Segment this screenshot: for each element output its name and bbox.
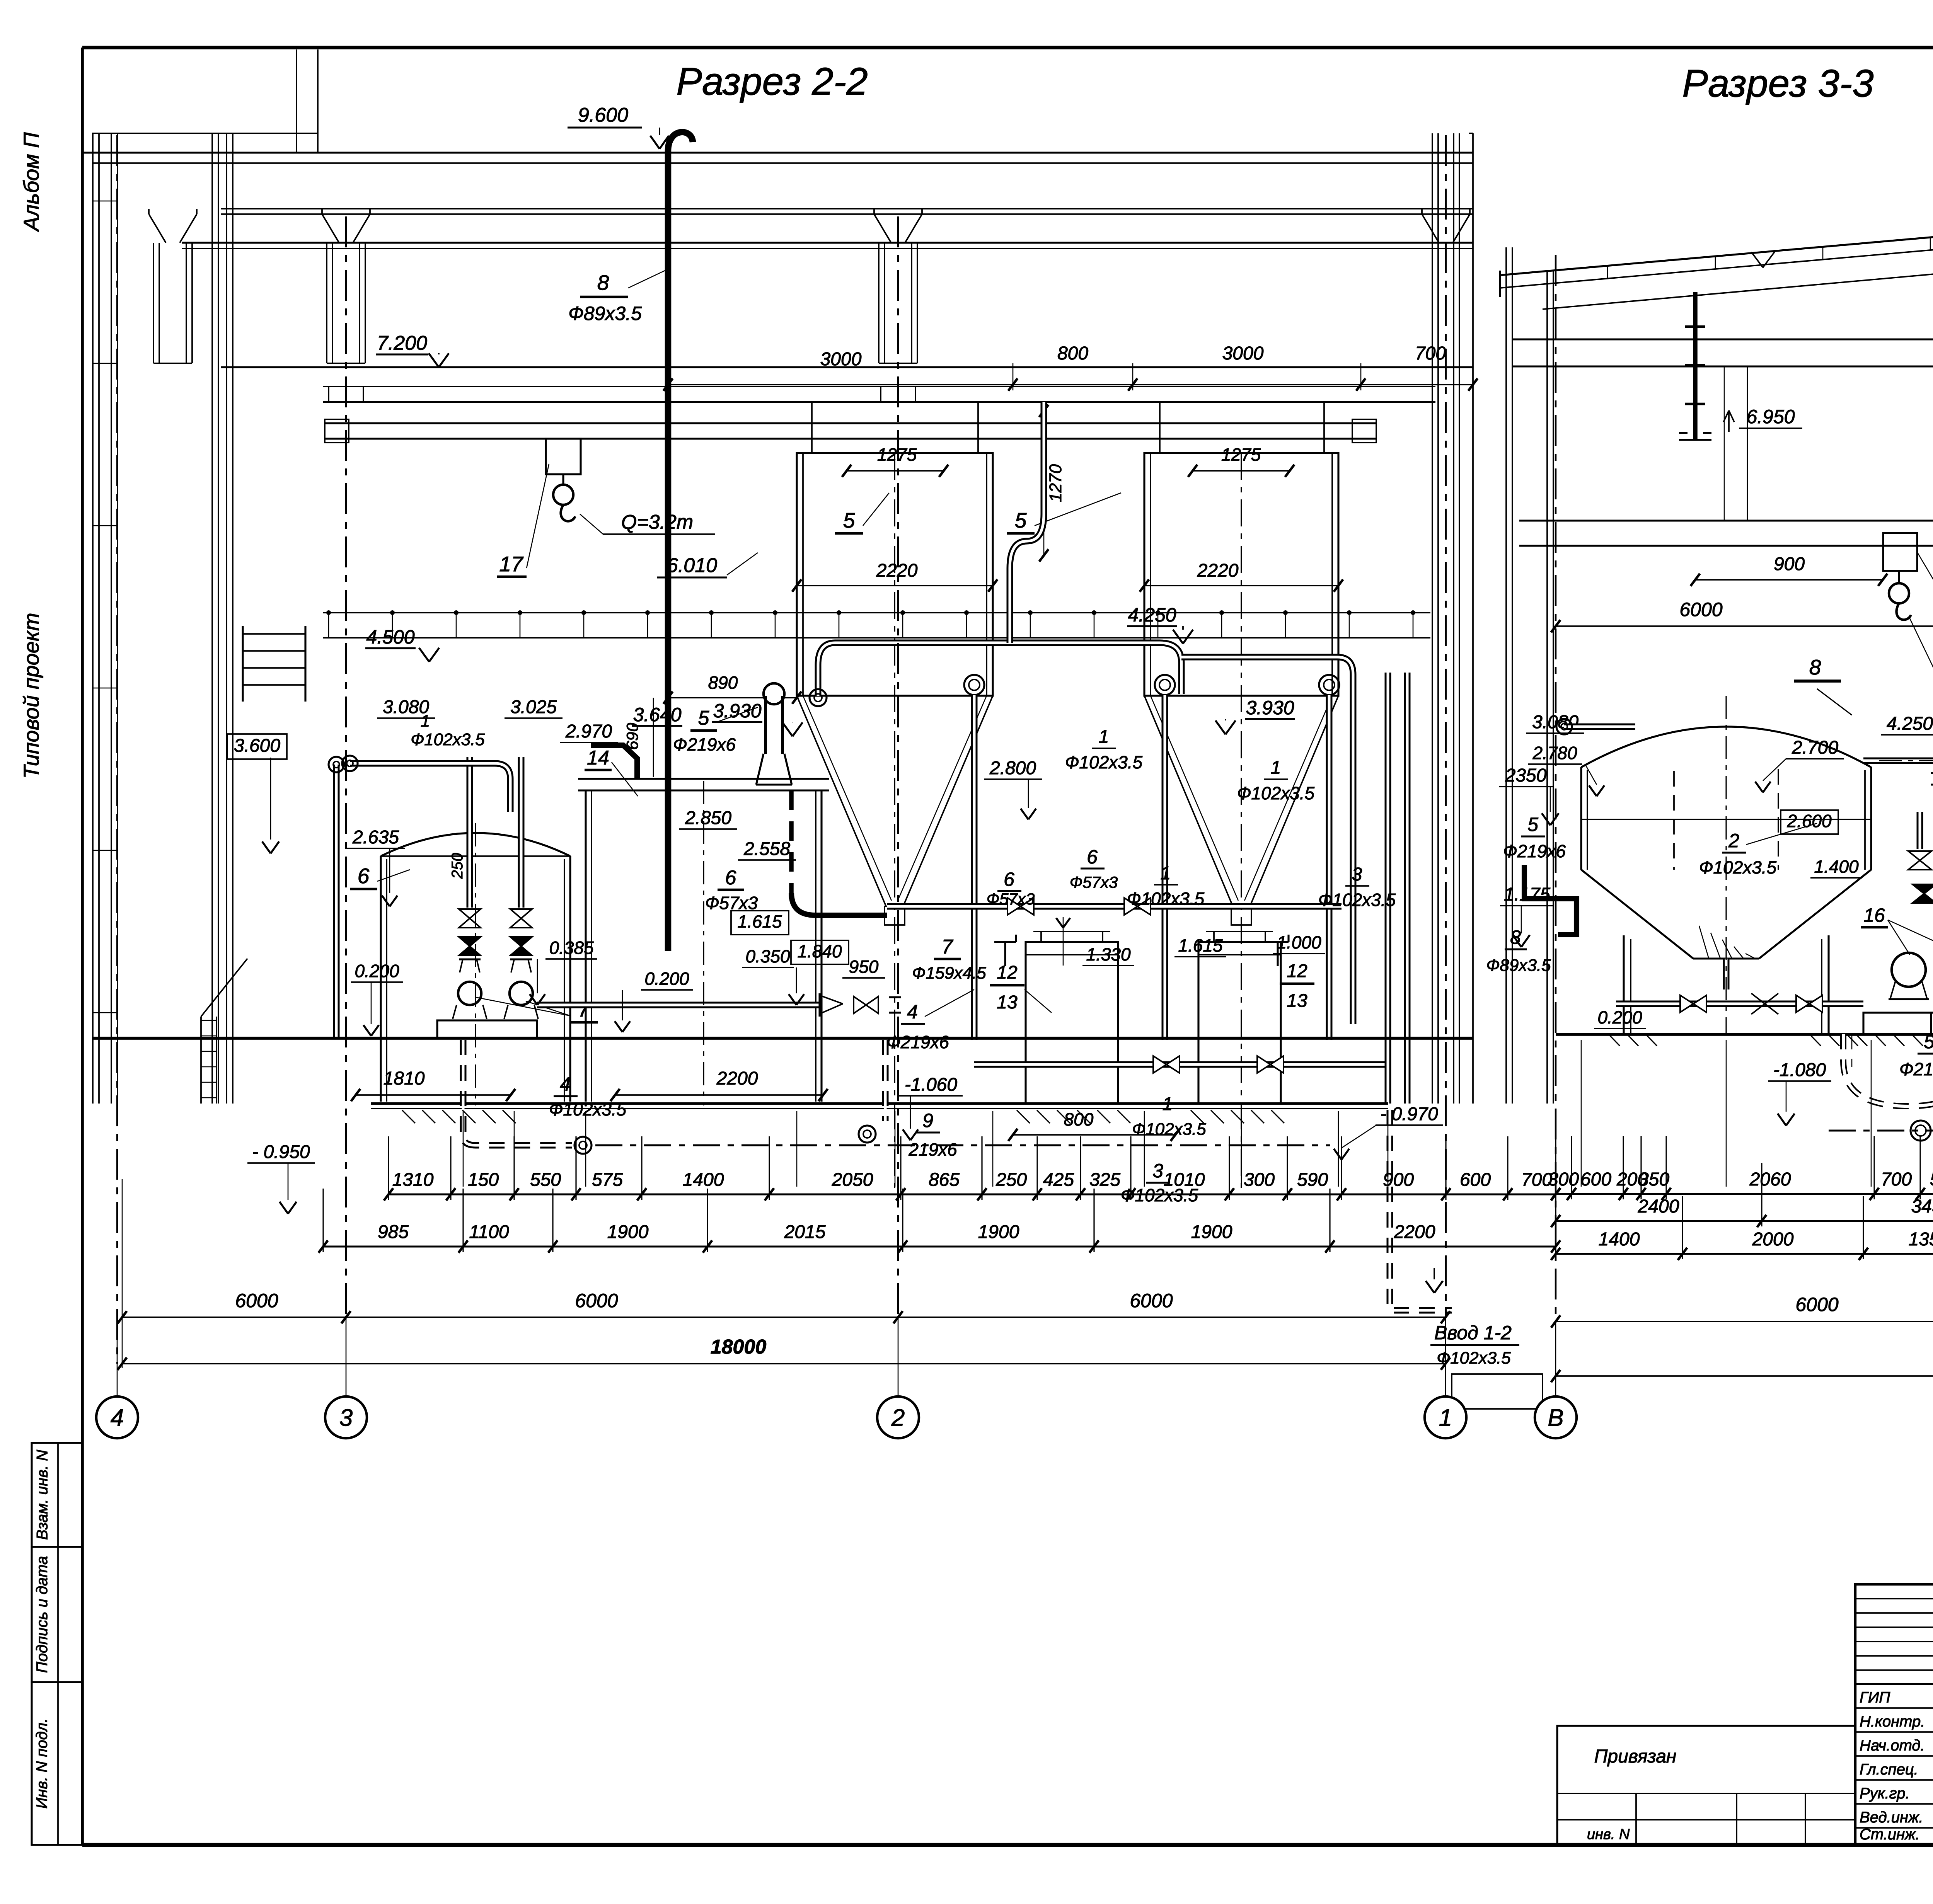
svg-text:300: 300 <box>1548 1169 1579 1190</box>
svg-text:3000: 3000 <box>1222 343 1264 364</box>
svg-text:Ф102х3.5: Ф102х3.5 <box>1699 857 1777 877</box>
svg-text:1: 1 <box>1099 727 1109 747</box>
svg-text:2050: 2050 <box>832 1170 873 1190</box>
svg-text:0.200: 0.200 <box>355 961 399 981</box>
svg-text:4: 4 <box>560 1073 571 1095</box>
svg-text:6000: 6000 <box>235 1290 278 1311</box>
svg-text:Ф102х3.5: Ф102х3.5 <box>1318 890 1396 910</box>
svg-text:14: 14 <box>587 747 609 769</box>
svg-text:1400: 1400 <box>683 1170 724 1190</box>
svg-text:Вед.инж.: Вед.инж. <box>1860 1809 1923 1826</box>
svg-text:4.500: 4.500 <box>366 626 414 648</box>
svg-text:590: 590 <box>1297 1170 1328 1190</box>
svg-text:Ф89х3.5: Ф89х3.5 <box>1486 956 1551 975</box>
svg-text:Нач.отд.: Нач.отд. <box>1860 1737 1925 1754</box>
svg-text:Взам. инв. N: Взам. инв. N <box>34 1450 51 1540</box>
svg-text:2220: 2220 <box>876 560 918 581</box>
svg-text:2400: 2400 <box>1638 1196 1679 1217</box>
svg-text:13: 13 <box>997 992 1018 1013</box>
svg-text:6000: 6000 <box>1130 1290 1173 1311</box>
svg-text:1810: 1810 <box>384 1068 425 1089</box>
svg-text:5: 5 <box>1924 1031 1933 1052</box>
svg-text:3: 3 <box>339 1405 353 1431</box>
svg-text:0.350: 0.350 <box>745 946 790 966</box>
svg-text:890: 890 <box>708 673 738 693</box>
svg-text:0.200: 0.200 <box>1597 1007 1642 1027</box>
svg-text:2.850: 2.850 <box>685 808 731 828</box>
svg-text:2.635: 2.635 <box>352 827 399 848</box>
svg-text:Привязан: Привязан <box>1594 1746 1677 1767</box>
svg-text:600: 600 <box>1580 1169 1611 1190</box>
svg-text:250: 250 <box>449 853 466 879</box>
svg-text:Ф102х3.5: Ф102х3.5 <box>1065 752 1143 772</box>
svg-text:Разрез 3-3: Разрез 3-3 <box>1682 62 1874 105</box>
svg-text:4: 4 <box>111 1405 124 1431</box>
svg-text:6000: 6000 <box>575 1290 618 1311</box>
svg-text:12: 12 <box>997 962 1017 983</box>
svg-text:Ф219х6: Ф219х6 <box>1899 1059 1933 1079</box>
svg-text:13: 13 <box>1287 991 1307 1011</box>
svg-text:1.175: 1.175 <box>1504 884 1550 905</box>
svg-text:2.800: 2.800 <box>989 758 1036 778</box>
svg-text:Типовой проект: Типовой проект <box>19 613 43 778</box>
svg-text:5: 5 <box>1527 814 1538 835</box>
svg-text:2000: 2000 <box>1752 1229 1794 1250</box>
svg-text:В: В <box>1548 1405 1563 1431</box>
svg-text:950: 950 <box>849 957 879 977</box>
svg-text:250: 250 <box>995 1170 1027 1190</box>
svg-text:1.000: 1.000 <box>1277 932 1321 952</box>
svg-text:2200: 2200 <box>716 1068 758 1089</box>
svg-text:1.615: 1.615 <box>1178 935 1223 955</box>
svg-text:Ф57х3: Ф57х3 <box>1070 873 1118 891</box>
svg-text:1010: 1010 <box>1164 1170 1205 1190</box>
svg-text:6.950: 6.950 <box>1746 406 1795 427</box>
svg-text:16: 16 <box>1863 904 1885 926</box>
svg-text:Ф102х3.5: Ф102х3.5 <box>549 1099 627 1119</box>
svg-text:2: 2 <box>891 1405 905 1431</box>
svg-text:6000: 6000 <box>1679 599 1722 620</box>
svg-text:17: 17 <box>499 552 524 576</box>
svg-text:1: 1 <box>1161 863 1171 884</box>
svg-text:3: 3 <box>1152 1160 1163 1182</box>
svg-text:6: 6 <box>1087 846 1098 868</box>
svg-text:8: 8 <box>1809 655 1821 679</box>
svg-text:150: 150 <box>468 1170 499 1190</box>
svg-text:Ф219х6: Ф219х6 <box>673 734 736 754</box>
svg-text:ГИП: ГИП <box>1860 1689 1890 1706</box>
svg-text:8: 8 <box>1510 926 1521 948</box>
svg-text:Ф57х3: Ф57х3 <box>987 890 1035 908</box>
svg-text:Ф102х3.5: Ф102х3.5 <box>1132 1120 1206 1139</box>
svg-text:2200: 2200 <box>1394 1222 1435 1242</box>
svg-text:1400: 1400 <box>1599 1229 1640 1250</box>
svg-text:6.010: 6.010 <box>667 554 717 577</box>
svg-text:Разрез 2-2: Разрез 2-2 <box>676 60 868 103</box>
svg-text:Q=3.2т: Q=3.2т <box>621 511 693 533</box>
svg-text:3450: 3450 <box>1911 1196 1933 1217</box>
svg-text:7.200: 7.200 <box>377 332 427 354</box>
svg-text:Альбом П: Альбом П <box>19 132 43 232</box>
svg-text:3: 3 <box>1352 864 1362 885</box>
svg-text:7: 7 <box>942 936 954 958</box>
svg-text:Ф89х3.5: Ф89х3.5 <box>568 303 642 324</box>
svg-text:2: 2 <box>1728 830 1739 852</box>
svg-text:7: 7 <box>578 997 591 1021</box>
svg-text:Рук.гр.: Рук.гр. <box>1860 1785 1910 1802</box>
svg-text:985: 985 <box>378 1222 409 1242</box>
svg-text:5: 5 <box>843 508 855 532</box>
svg-text:2015: 2015 <box>784 1222 826 1242</box>
svg-text:2.700: 2.700 <box>1792 737 1838 758</box>
svg-text:3.930: 3.930 <box>1246 697 1294 719</box>
svg-text:9: 9 <box>922 1110 933 1131</box>
svg-text:1: 1 <box>1163 1094 1173 1114</box>
svg-text:3.640: 3.640 <box>633 704 681 725</box>
svg-text:1: 1 <box>421 712 430 731</box>
svg-text:325: 325 <box>1089 1170 1120 1190</box>
svg-text:865: 865 <box>929 1170 960 1190</box>
svg-text:700: 700 <box>1415 343 1446 364</box>
svg-text:700: 700 <box>1881 1169 1912 1190</box>
svg-text:575: 575 <box>592 1170 623 1190</box>
svg-text:2220: 2220 <box>1197 560 1239 581</box>
svg-text:2350: 2350 <box>1505 765 1547 786</box>
svg-text:Гл.спец.: Гл.спец. <box>1860 1761 1918 1778</box>
svg-text:18000: 18000 <box>711 1336 767 1358</box>
svg-text:350: 350 <box>1638 1169 1669 1190</box>
svg-text:12: 12 <box>1287 961 1307 981</box>
svg-text:0.200: 0.200 <box>644 969 689 989</box>
svg-text:5: 5 <box>698 707 710 729</box>
svg-text:550: 550 <box>530 1170 561 1190</box>
svg-text:Ф219х6: Ф219х6 <box>886 1032 949 1052</box>
svg-text:1350: 1350 <box>1909 1229 1933 1250</box>
svg-text:590: 590 <box>1930 1169 1933 1190</box>
svg-text:2.970: 2.970 <box>565 721 612 742</box>
svg-text:1275: 1275 <box>877 444 917 465</box>
svg-text:3000: 3000 <box>820 349 862 370</box>
svg-text:6: 6 <box>358 864 370 888</box>
svg-text:2060: 2060 <box>1749 1169 1791 1190</box>
svg-text:300: 300 <box>1244 1170 1275 1190</box>
svg-text:5: 5 <box>1015 508 1027 532</box>
svg-text:1900: 1900 <box>607 1222 649 1242</box>
svg-text:3.930: 3.930 <box>713 700 761 722</box>
svg-text:1.400: 1.400 <box>1814 857 1859 877</box>
svg-text:Ст.инж.: Ст.инж. <box>1860 1826 1920 1843</box>
svg-text:-1.080: -1.080 <box>1773 1060 1826 1080</box>
svg-text:6: 6 <box>725 867 736 889</box>
svg-text:600: 600 <box>1460 1170 1491 1190</box>
svg-text:1: 1 <box>1271 758 1281 778</box>
svg-text:1.840: 1.840 <box>797 941 842 961</box>
svg-text:8: 8 <box>597 271 609 295</box>
svg-text:- 0.970: - 0.970 <box>1380 1104 1438 1124</box>
svg-text:0.385: 0.385 <box>549 938 594 958</box>
svg-text:Ф102х3.5: Ф102х3.5 <box>411 730 485 749</box>
svg-text:Н.контр.: Н.контр. <box>1860 1713 1925 1730</box>
svg-text:1100: 1100 <box>469 1222 509 1242</box>
svg-text:219х6: 219х6 <box>908 1139 957 1160</box>
svg-text:6000: 6000 <box>1795 1294 1838 1315</box>
svg-text:-1.060: -1.060 <box>905 1075 957 1095</box>
svg-text:2.780: 2.780 <box>1532 743 1577 763</box>
svg-text:Подпись и дата: Подпись и дата <box>34 1556 51 1673</box>
svg-text:1310: 1310 <box>392 1170 434 1190</box>
svg-text:2.600: 2.600 <box>1786 811 1832 831</box>
svg-text:- 0.950: - 0.950 <box>252 1142 310 1162</box>
svg-text:800: 800 <box>1057 343 1088 364</box>
svg-text:900: 900 <box>1774 554 1805 574</box>
svg-text:3.025: 3.025 <box>510 697 557 717</box>
svg-text:Инв. N подл.: Инв. N подл. <box>34 1718 51 1809</box>
svg-text:1270: 1270 <box>1046 464 1065 502</box>
svg-text:1.615: 1.615 <box>737 911 782 932</box>
svg-text:Ф102х3.5: Ф102х3.5 <box>1127 889 1205 909</box>
svg-text:3.600: 3.600 <box>234 736 280 756</box>
svg-text:2.558: 2.558 <box>743 839 790 859</box>
svg-text:Ф102х3.5: Ф102х3.5 <box>1237 783 1315 803</box>
svg-text:Ф102х3.5: Ф102х3.5 <box>1437 1349 1511 1368</box>
svg-text:1900: 1900 <box>978 1222 1019 1242</box>
svg-text:1: 1 <box>1439 1405 1452 1431</box>
svg-text:1900: 1900 <box>1191 1222 1232 1242</box>
svg-text:4: 4 <box>907 1001 918 1023</box>
svg-text:инв. N: инв. N <box>1587 1826 1630 1843</box>
svg-text:425: 425 <box>1043 1170 1074 1190</box>
svg-text:Ф159х4.5: Ф159х4.5 <box>912 964 986 983</box>
svg-text:4.250: 4.250 <box>1887 714 1933 734</box>
svg-text:4.250: 4.250 <box>1128 604 1176 626</box>
svg-text:6: 6 <box>1004 869 1014 890</box>
svg-text:9.600: 9.600 <box>578 104 628 126</box>
